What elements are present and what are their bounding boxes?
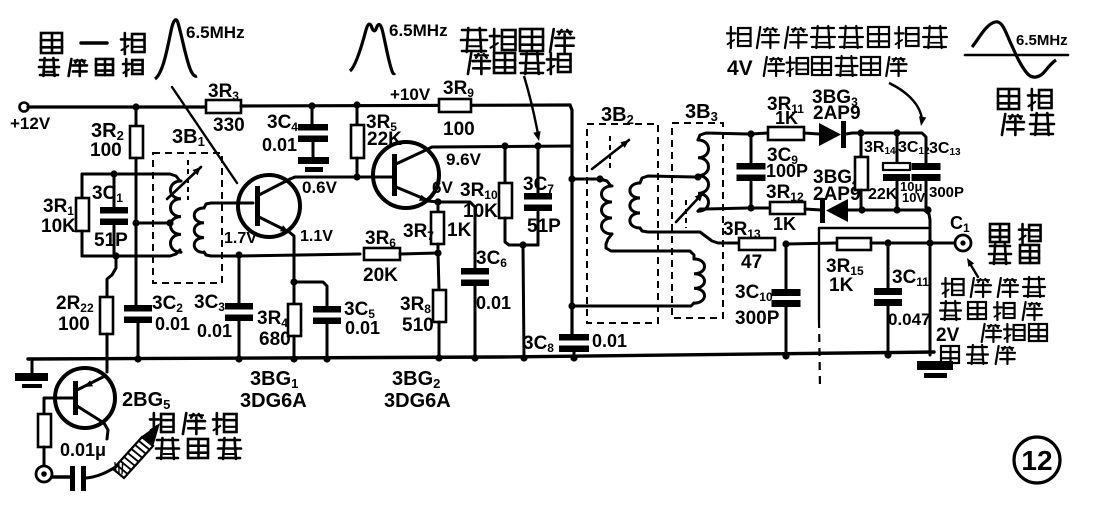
wire 3C4 to ground sym xyxy=(312,142,315,158)
label discriminator curve line1 xyxy=(998,89,1052,110)
svg-text:3R13: 3R13 xyxy=(723,219,761,241)
pointer arrow to collector node xyxy=(524,76,541,141)
resistor 3R12 xyxy=(770,202,805,214)
label 3C2 xyxy=(152,293,183,315)
label 3C5 xyxy=(344,299,375,321)
label 0.6V xyxy=(302,178,338,197)
resistor 3R2 xyxy=(130,126,143,158)
label 9.6V xyxy=(446,150,482,169)
wire 3C1 bottom stub xyxy=(113,226,116,256)
wire deemphasis stub xyxy=(819,228,928,388)
label 3B3 xyxy=(685,101,718,124)
label 3R11 xyxy=(767,94,804,116)
label 3B1 xyxy=(172,126,205,149)
svg-text:6.5MHz: 6.5MHz xyxy=(186,23,245,42)
label 3R1 xyxy=(43,196,74,218)
wire 3BG2 emitter node xyxy=(428,201,438,202)
svg-text:10K: 10K xyxy=(463,201,498,222)
diode 3BG4 xyxy=(820,198,848,223)
wire tank bottom to 2R22 xyxy=(107,256,116,297)
node gnd 3C7branch xyxy=(520,354,527,361)
svg-text:C1: C1 xyxy=(950,213,970,235)
wire 3R1 bottom stub xyxy=(81,231,84,256)
wire 3B1 secondary top lead xyxy=(204,203,253,208)
capacitor 3C12 electrolytic xyxy=(883,133,910,210)
resistor 3R11 xyxy=(768,127,804,140)
svg-text:3C3: 3C3 xyxy=(194,292,225,314)
label 3R13 xyxy=(723,219,761,241)
svg-text:3C4: 3C4 xyxy=(267,112,298,134)
svg-text:2AP9: 2AP9 xyxy=(813,103,861,124)
node collector-3R10 xyxy=(501,142,508,149)
label 1K (3R15) xyxy=(829,275,854,296)
node 3R10-3C7 bottom xyxy=(519,241,526,248)
svg-text:3C13: 3C13 xyxy=(929,140,961,158)
wire 2BG5 base xyxy=(44,398,73,414)
wire tap xyxy=(136,222,170,225)
svg-text:0.01: 0.01 xyxy=(155,314,190,334)
node tap coil xyxy=(166,219,173,226)
capacitor 3C6 xyxy=(461,268,489,286)
node tertiary return xyxy=(568,302,575,309)
pointer line to 3BG1 xyxy=(172,87,237,183)
svg-text:1.7V: 1.7V xyxy=(224,230,257,247)
ground rail xyxy=(28,352,934,359)
wire 3C7 bottom stub xyxy=(537,212,540,245)
svg-text:0.01: 0.01 xyxy=(197,321,232,341)
label 0.01u xyxy=(60,440,106,460)
transformer 3B1 box xyxy=(153,153,222,283)
label 2V annotation line1 xyxy=(942,277,1045,297)
label 100 (3R2) xyxy=(90,140,122,161)
label FM output line1 xyxy=(990,224,1041,243)
label 0.047 xyxy=(888,310,931,329)
trimmer arrow 3B1 xyxy=(167,160,201,200)
label 3R6 xyxy=(365,228,396,250)
response curve 1 (6.5MHz) xyxy=(155,20,197,79)
coil 3B1 secondary xyxy=(194,208,204,252)
terminal +12V input xyxy=(20,103,29,112)
ground symbol 3C4 xyxy=(298,157,329,172)
svg-text:0.6V: 0.6V xyxy=(302,178,338,197)
label 6.5MHz curve3 xyxy=(1016,32,1068,49)
wire 3B2 secondary bottom xyxy=(640,228,739,243)
capacitor 3C5 xyxy=(313,306,341,324)
label 330 xyxy=(213,115,245,136)
label 10K (3R10) xyxy=(463,201,498,222)
label 3R12 xyxy=(766,182,804,204)
label 3C12 xyxy=(898,139,930,157)
resistor 3R4 xyxy=(288,304,301,336)
node 3C3 top xyxy=(235,251,242,258)
svg-text:0.047: 0.047 xyxy=(888,310,931,329)
capacitor 3C8 xyxy=(559,334,589,352)
capacitor 3C10 xyxy=(772,244,801,357)
svg-text:3R7: 3R7 xyxy=(403,221,434,243)
node tap left xyxy=(132,219,139,226)
node collector-3C7 xyxy=(534,142,541,149)
label 10V xyxy=(902,190,925,205)
wire 3R2 to tap xyxy=(135,158,138,305)
capacitor 0.01u coupling xyxy=(70,466,86,491)
wire 3R5 bottom stub xyxy=(356,158,359,177)
label 1K (3R11) xyxy=(775,108,798,128)
wire 3C6 to ground xyxy=(474,286,477,359)
svg-text:6.5MHz: 6.5MHz xyxy=(389,21,448,40)
wire tank top xyxy=(82,174,180,181)
wire 3R7 top stub xyxy=(437,202,440,212)
wire 3C4 stub xyxy=(311,106,314,124)
label 3C7 xyxy=(523,174,554,196)
svg-text:3C8: 3C8 xyxy=(523,333,554,355)
label 3C4 xyxy=(267,112,298,134)
svg-text:22K: 22K xyxy=(367,129,402,150)
label 3C6 xyxy=(476,248,507,270)
svg-text:47: 47 xyxy=(741,252,762,273)
node 3C9 bottom xyxy=(747,204,754,211)
diode 3BG3 xyxy=(819,121,846,148)
label 3R9 xyxy=(443,78,474,100)
svg-text:9.6V: 9.6V xyxy=(446,150,482,169)
wire 3R10 top stub xyxy=(504,146,507,183)
wire +12V rail left xyxy=(28,105,206,108)
wire 3BG1 emitter down xyxy=(288,231,294,282)
node rail-3C4 xyxy=(308,102,315,109)
wire 3R5 top stub xyxy=(356,106,359,125)
wire 3C3 stub xyxy=(238,255,241,303)
wire 3R4 to ground xyxy=(293,336,296,359)
label 0.01 (3C2) xyxy=(155,314,190,334)
svg-text:3C2: 3C2 xyxy=(152,293,183,315)
node gnd 3C3 xyxy=(235,355,242,362)
terminal C1 xyxy=(955,235,971,251)
label first-stage IF curve line2 xyxy=(39,58,143,76)
label inject sweep line2 xyxy=(156,438,241,459)
svg-text:1K: 1K xyxy=(829,275,854,296)
label 3BG1 xyxy=(250,368,298,391)
resistor 3R6 xyxy=(364,248,400,260)
wire +10V rail xyxy=(241,105,570,106)
node 3B3 tap xyxy=(694,173,701,180)
label 51P xyxy=(94,230,128,251)
resistor 3R15 xyxy=(837,238,871,250)
capacitor 3C1 xyxy=(100,207,128,225)
label 100P xyxy=(766,161,808,181)
svg-text:100: 100 xyxy=(90,140,122,161)
capacitor 3C11 xyxy=(874,243,902,355)
svg-text:20K: 20K xyxy=(363,265,398,286)
svg-text:2AP9: 2AP9 xyxy=(813,184,861,205)
resistor 3R5 xyxy=(351,125,364,158)
wire 3B2 primary bottom xyxy=(606,234,694,259)
label 3R8 xyxy=(400,294,431,316)
svg-text:3R9: 3R9 xyxy=(443,78,474,100)
svg-text:51P: 51P xyxy=(527,216,561,237)
node rail-3R5 xyxy=(353,101,360,108)
label 3C1 xyxy=(92,183,123,205)
svg-text:0.01μ: 0.01μ xyxy=(60,440,106,460)
transistor 2BG5 xyxy=(55,368,115,439)
label 1K (3R12) xyxy=(773,214,796,234)
svg-text:330: 330 xyxy=(213,115,245,136)
label 1.1V xyxy=(300,228,333,245)
wire +10V vertical xyxy=(570,105,572,334)
svg-text:12: 12 xyxy=(1021,445,1052,476)
label 10u xyxy=(900,179,922,194)
node bot-3C12 xyxy=(893,206,900,213)
label +10V xyxy=(390,85,431,104)
wire 3R8 top stub xyxy=(438,253,439,290)
label 3R14 xyxy=(864,139,896,157)
svg-text:100: 100 xyxy=(443,119,475,140)
node 3C9 top xyxy=(747,130,754,137)
resistor 3R7 xyxy=(431,212,444,244)
resistor 3R1 xyxy=(76,198,89,231)
resistor 3R13 xyxy=(739,238,775,250)
label 3C10 xyxy=(735,282,773,304)
node gnd 3R8 xyxy=(435,354,442,361)
node gnd 3C10 xyxy=(782,352,789,359)
label +12V xyxy=(10,114,51,133)
label 22K (3R5) xyxy=(367,129,402,150)
capacitor 3C13 xyxy=(912,163,941,210)
svg-text:3C6: 3C6 xyxy=(476,248,507,270)
node 3B2 primary lead xyxy=(596,175,603,182)
svg-text:300P: 300P xyxy=(929,184,964,201)
wire 3C8 to ground xyxy=(573,352,576,359)
svg-text:0.01: 0.01 xyxy=(476,293,511,313)
label combined curve line1 xyxy=(461,28,574,52)
transistor 3BG1 xyxy=(238,175,300,237)
svg-text:3R10: 3R10 xyxy=(460,180,498,202)
label 51P (3C7) xyxy=(527,216,561,237)
node gnd 3C6 xyxy=(471,354,478,361)
label 3R7 xyxy=(403,221,434,243)
transformer 3B3 box xyxy=(672,123,723,318)
label 3C8 xyxy=(523,333,554,355)
svg-text:6.5MHz: 6.5MHz xyxy=(1016,32,1068,49)
wire 3R8 to ground xyxy=(438,322,441,359)
node top-3R14 xyxy=(857,129,864,136)
wire 3B2 secondary top xyxy=(640,176,695,183)
label 3DG6A (2) xyxy=(384,390,451,412)
figure number 12 xyxy=(1014,437,1060,483)
label 3DG6A (1) xyxy=(240,390,307,412)
label 300P (3C13) xyxy=(929,184,964,201)
wire 3C1 top stub xyxy=(113,174,116,207)
resistor 3R14 xyxy=(855,133,868,210)
wire 3R10 bottom xyxy=(505,218,538,245)
svg-text:300P: 300P xyxy=(735,308,780,329)
wire 3BG3 to corner xyxy=(846,133,926,163)
svg-text:680: 680 xyxy=(259,329,291,350)
svg-text:3DG6A: 3DG6A xyxy=(240,390,307,412)
node gnd 3C5 xyxy=(323,355,330,362)
label 100 (3R9) xyxy=(443,119,475,140)
label discriminator curve line2 xyxy=(1002,113,1054,135)
svg-text:3R1: 3R1 xyxy=(43,196,74,218)
resistor 3R10 xyxy=(499,183,512,218)
node 3R13-3C10 xyxy=(782,240,789,247)
wire emitter to 3C5 xyxy=(294,282,327,306)
label 3C9 xyxy=(767,145,798,167)
label 100 (2R22) xyxy=(58,314,90,335)
wire 3C7 top stub xyxy=(537,146,540,193)
resistor 2R22 xyxy=(100,297,113,334)
label 2V annotation line4 xyxy=(941,345,1015,364)
label 0.01 (3C3) xyxy=(197,321,232,341)
node 3BG2 emitter xyxy=(434,198,441,205)
discriminator baseline xyxy=(965,54,1068,57)
label 47 xyxy=(741,252,762,273)
label 3C13 xyxy=(929,140,961,158)
node bot-3R14 xyxy=(858,206,865,213)
label 2R22 xyxy=(56,293,94,315)
resistor 3R8 xyxy=(433,290,446,322)
label FM output line2 xyxy=(989,244,1039,264)
wire 3C2 to ground xyxy=(137,323,140,359)
wire 3R7 bottom stub xyxy=(437,244,440,253)
svg-text:2V: 2V xyxy=(936,325,960,346)
wire 3BG1 collector xyxy=(290,177,392,179)
label 3R5 xyxy=(366,112,397,134)
svg-text:22K: 22K xyxy=(868,186,898,203)
svg-text:3R6: 3R6 xyxy=(365,228,396,250)
label 2AP9 (3BG3) xyxy=(813,103,861,124)
wire 3B3 bottom lead xyxy=(698,208,748,211)
svg-text:3R12: 3R12 xyxy=(766,182,804,204)
svg-text:4V: 4V xyxy=(727,57,753,80)
label 2BG5 xyxy=(122,389,170,412)
capacitor 3C9 xyxy=(737,134,766,208)
label 20K xyxy=(363,265,398,286)
wire 3R6 to 3R7 node xyxy=(400,253,438,254)
svg-text:6V: 6V xyxy=(432,178,453,197)
label 4V annotation line1 xyxy=(727,26,947,48)
label 2V annotation line3 xyxy=(936,324,1047,346)
label 0.01 (3C8) xyxy=(592,331,627,351)
wire 3BG2 collector xyxy=(426,146,572,150)
label 3BG4 xyxy=(813,167,859,189)
coil 3B2 secondary xyxy=(630,183,640,228)
wire emitter to 3R4 xyxy=(293,282,296,304)
wire 3B3 top lead xyxy=(698,133,748,140)
label 6V xyxy=(432,178,453,197)
label 2AP9 (3BG4) xyxy=(813,184,861,205)
label 3C11 xyxy=(892,267,929,289)
label combined curve line2 xyxy=(468,52,571,74)
label inject sweep line1 xyxy=(150,413,237,434)
wire emitter to 3C6 xyxy=(438,202,475,268)
label 3R10 xyxy=(460,180,498,202)
node rail-3R2 xyxy=(132,103,139,110)
node 3C1 top xyxy=(110,170,117,177)
wire tank bottom xyxy=(82,250,180,256)
wire 3C7 node to ground xyxy=(523,245,524,358)
response curve 2 (6.5MHz) xyxy=(350,24,395,74)
label C1 xyxy=(950,213,970,235)
label 6.5MHz curve1 xyxy=(186,23,245,42)
probe hatched arrow xyxy=(113,423,160,478)
label 3BG2 xyxy=(392,368,440,391)
label 1K (3R7) xyxy=(447,220,472,241)
wire 2R22 to 2BG5 emitter xyxy=(106,334,109,372)
label 6.5MHz curve2 xyxy=(389,21,448,40)
label 3C3 xyxy=(194,292,225,314)
coil 3B3 tertiary xyxy=(694,259,705,303)
svg-text:3C7: 3C7 xyxy=(523,174,554,196)
ground symbol left xyxy=(15,359,48,388)
svg-text:3B3: 3B3 xyxy=(685,101,718,124)
label 680 xyxy=(259,329,291,350)
svg-text:2BG5: 2BG5 xyxy=(122,389,170,412)
node 3R7-3R8-3R6 xyxy=(434,249,441,256)
svg-text:1K: 1K xyxy=(447,220,472,241)
node 3R5 bottom xyxy=(353,173,360,180)
svg-text:3C11: 3C11 xyxy=(892,267,929,289)
node 3BG1 emitter xyxy=(290,278,297,285)
wire 3C9bot-3R12 xyxy=(751,207,770,210)
node gnd 3C2 xyxy=(134,355,141,362)
resistor 2Rbase xyxy=(38,414,51,447)
svg-text:0.01: 0.01 xyxy=(592,331,627,351)
label 3R2 xyxy=(91,120,124,143)
capacitor 3C7 xyxy=(524,193,552,211)
trimmer arrow 3B2 xyxy=(592,136,629,172)
terminal sweep input xyxy=(36,466,52,482)
node out vertical xyxy=(926,239,933,246)
label 1.7V xyxy=(224,230,257,247)
wire tertiary bottom xyxy=(572,303,694,306)
label 2V annotation line2 xyxy=(940,301,1042,320)
node top-3C12 xyxy=(893,129,900,136)
transistor 3BG2 xyxy=(373,142,439,208)
label 0.01 (3C5) xyxy=(345,318,380,338)
pointer arrow 4V xyxy=(889,83,926,126)
node bot-3C13 xyxy=(924,206,931,213)
svg-text:3B2: 3B2 xyxy=(601,104,634,127)
label 510 xyxy=(402,315,434,336)
coil 3B1 primary xyxy=(171,181,182,252)
label 0.01 (3C4) xyxy=(262,135,297,155)
node gnd 3R4 xyxy=(290,355,297,362)
resistor 3R3 xyxy=(206,100,241,113)
resistor 3R9 xyxy=(439,99,471,112)
wire base return xyxy=(236,254,360,256)
wire 3R15 to C1 xyxy=(871,242,955,245)
coil 3B3 secondary xyxy=(698,140,709,211)
svg-text:1.1V: 1.1V xyxy=(300,228,333,245)
svg-text:100: 100 xyxy=(58,314,90,335)
svg-text:10V: 10V xyxy=(902,190,925,205)
wire 3B1 secondary bottom lead xyxy=(204,252,236,256)
svg-text:3C1: 3C1 xyxy=(92,183,123,205)
wire 3C9top-3R11 xyxy=(751,133,768,134)
svg-text:2R22: 2R22 xyxy=(56,293,94,315)
node gnd 3C11 xyxy=(884,351,891,358)
wire 3BG4 right xyxy=(848,210,930,355)
svg-text:3BG1: 3BG1 xyxy=(250,368,298,391)
svg-text:0.01: 0.01 xyxy=(262,135,297,155)
label 0.01 (3C6) xyxy=(476,293,511,313)
svg-text:510: 510 xyxy=(402,315,434,336)
capacitor 3C4 xyxy=(298,124,328,142)
node gnd 3C8 xyxy=(570,354,577,361)
svg-text:0.01: 0.01 xyxy=(345,318,380,338)
svg-text:100P: 100P xyxy=(766,161,808,181)
wire 3R1 top stub xyxy=(81,174,84,198)
node 3B2 feed xyxy=(568,175,575,182)
